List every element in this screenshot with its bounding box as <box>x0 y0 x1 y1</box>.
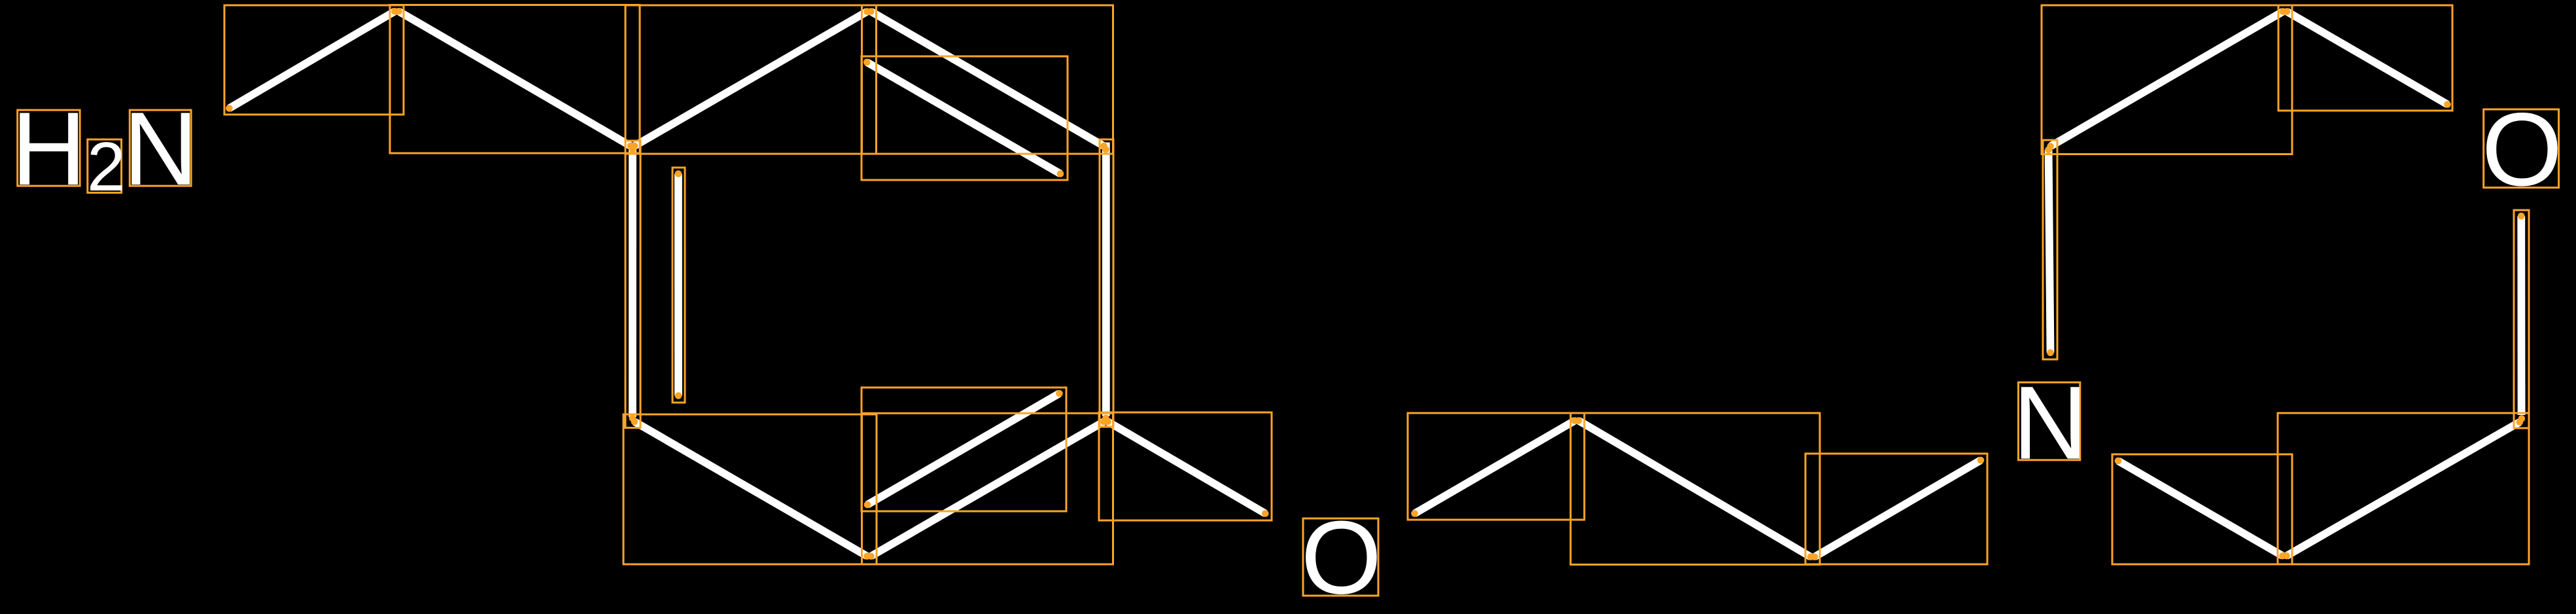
svg-text:2: 2 <box>87 128 126 206</box>
svg-text:O: O <box>2482 91 2563 208</box>
svg-text:N: N <box>2013 365 2088 481</box>
svg-text:O: O <box>1301 499 1382 614</box>
svg-text:H: H <box>11 90 86 207</box>
svg-text:N: N <box>123 90 198 207</box>
